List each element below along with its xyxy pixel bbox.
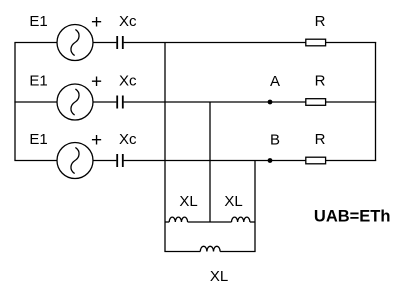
svg-text:Xc: Xc — [119, 73, 137, 90]
wire row2 resistor-to-rail — [326, 101, 377, 103]
svg-text:+: + — [91, 130, 102, 151]
wire row1 cap-to-resistor — [124, 42, 306, 44]
source E1 row2 circle — [57, 84, 93, 120]
wire inductor-row middle segment — [188, 221, 232, 223]
svg-text:XL: XL — [224, 193, 242, 210]
source E1 row2 sine — [71, 89, 79, 114]
wire bus phase1 down — [164, 43, 166, 252]
wire row2 source-to-cap — [93, 101, 116, 103]
wire inductor-row left stub — [165, 221, 169, 223]
inductor XL2 — [232, 217, 250, 222]
inductor XL1 — [169, 217, 187, 222]
resistor R row2 — [306, 99, 326, 106]
node B dot — [268, 158, 273, 163]
svg-text:R: R — [315, 73, 326, 90]
wire inductor-row right stub — [250, 221, 255, 223]
wire row3 rail-to-source — [14, 160, 57, 162]
wire row1 rail-to-source — [14, 42, 57, 44]
node A dot — [268, 100, 273, 105]
wire row1 source-to-cap — [93, 42, 116, 44]
svg-text:E1: E1 — [29, 131, 47, 148]
wire row3 resistor-to-rail — [326, 160, 377, 162]
wire bottom-row right segment — [220, 251, 256, 253]
svg-text:+: + — [91, 72, 102, 93]
inductor XL3 — [200, 246, 220, 251]
svg-text:E1: E1 — [29, 13, 47, 30]
svg-text:XL: XL — [179, 193, 197, 210]
wire bottom-row left segment — [164, 251, 200, 253]
svg-text:E1: E1 — [29, 73, 47, 90]
source E1 row1 sine — [71, 30, 79, 55]
svg-text:+: + — [91, 12, 102, 33]
wire row3 cap-to-resistor — [124, 160, 306, 162]
capacitor Xc row3 plates — [117, 154, 123, 167]
resistor R row1 — [306, 39, 326, 46]
svg-text:XL: XL — [210, 268, 228, 285]
svg-text:A: A — [270, 73, 280, 90]
wire row3 source-to-cap — [93, 160, 116, 162]
resistor R row3 — [306, 157, 326, 164]
wire right rail — [375, 43, 377, 161]
capacitor Xc row1 plates — [117, 36, 123, 49]
svg-text:B: B — [270, 132, 280, 149]
svg-text:UAB=ETh: UAB=ETh — [314, 208, 391, 226]
wire row2 cap-to-resistor — [124, 101, 306, 103]
wire bus phase2 down — [209, 102, 211, 222]
wire bus phase3 down — [254, 161, 256, 252]
wire row1 resistor-to-rail — [326, 42, 377, 44]
wire left rail — [14, 43, 16, 161]
svg-text:Xc: Xc — [119, 131, 137, 148]
source E1 row3 sine — [71, 148, 79, 173]
source E1 row1 circle — [57, 25, 93, 61]
svg-text:R: R — [315, 13, 326, 30]
wire row2 rail-to-source — [14, 101, 57, 103]
source E1 row3 circle — [57, 143, 93, 179]
svg-text:Xc: Xc — [119, 13, 137, 30]
svg-text:R: R — [315, 131, 326, 148]
capacitor Xc row2 plates — [117, 96, 123, 109]
